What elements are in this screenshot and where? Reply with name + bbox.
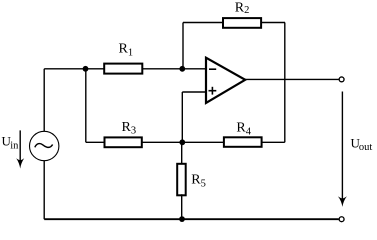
svg-text:R3: R3 [122, 120, 137, 137]
svg-text:R5: R5 [191, 173, 206, 190]
resistor R5 [177, 164, 206, 196]
resistor R1 [104, 42, 142, 74]
wire R3 row [86, 141, 183, 143]
svg-text:R2: R2 [235, 0, 250, 15]
U_in arrow [16, 130, 24, 168]
svg-text:R4: R4 [236, 121, 251, 138]
U_out arrow [338, 92, 347, 207]
resistor R2 [223, 0, 261, 27]
node junction dot at inverting input [179, 66, 185, 72]
wire R5 bottom lead [181, 194, 183, 219]
node junction dot left of R1 [83, 66, 89, 72]
wire right vertical (R2/R4 right to output node) [284, 23, 286, 143]
terminal output bottom [339, 217, 344, 222]
node junction dot R3/R4/R5 [179, 139, 185, 145]
node junction dot bottom of R5 [179, 216, 185, 222]
resistor R4 [224, 121, 262, 147]
wire left branch vertical (to R3) [85, 69, 87, 143]
wire bottom row [44, 218, 338, 220]
wire plus-input vertical branch [181, 92, 183, 142]
wire top horizontal (R2 feedback branch) [183, 22, 285, 24]
voltage source U_in [30, 131, 59, 160]
svg-text:R1: R1 [119, 42, 134, 59]
wire R5 top lead [181, 142, 183, 165]
wire output row [245, 78, 339, 80]
resistor R3 [105, 120, 142, 147]
wire R4 row [182, 141, 284, 143]
wire plus-input horizontal [182, 91, 207, 93]
svg-text:in: in [10, 141, 19, 152]
wire source top vertical [43, 69, 45, 132]
op-amp U1 [206, 58, 245, 103]
wire input row (source to inverting input) [44, 68, 207, 70]
wire left vertical of R2 branch [182, 23, 184, 69]
wire source bottom vertical [43, 161, 45, 220]
svg-text:out: out [359, 142, 373, 153]
terminal output top [339, 77, 344, 82]
